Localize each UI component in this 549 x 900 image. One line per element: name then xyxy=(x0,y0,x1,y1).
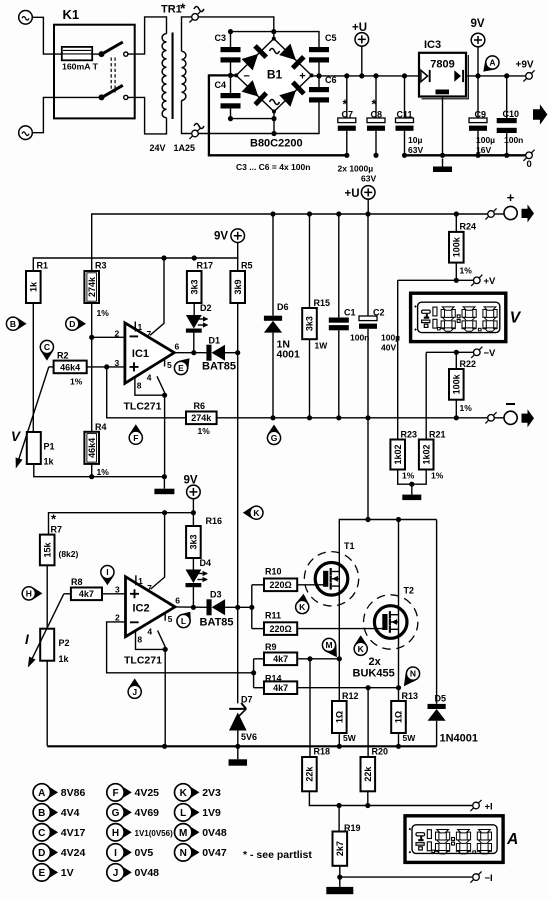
terminal secondary top xyxy=(189,11,200,22)
svg-text:R7: R7 xyxy=(51,525,63,535)
wire R21 top lead xyxy=(425,352,427,439)
junction IC2 pin4 pin8 xyxy=(163,647,168,652)
voltmeter module xyxy=(411,293,522,341)
legend node E 1V xyxy=(33,864,74,881)
wire R8 left stub xyxy=(64,593,71,595)
svg-text:1%: 1% xyxy=(198,426,211,436)
bridge rectifier B1 outline xyxy=(236,39,311,112)
svg-text:1%: 1% xyxy=(402,471,415,481)
wire R15 bottom lead xyxy=(309,339,311,418)
node C xyxy=(40,340,53,360)
wire R20 top lead xyxy=(367,688,369,757)
wire R22 top lead xyxy=(455,352,457,369)
capacitor C11 xyxy=(396,110,424,156)
wire C1 top lead xyxy=(338,214,340,318)
wire D5 cathode lead xyxy=(436,520,438,704)
node H xyxy=(22,587,42,600)
wire R20 bottom lead xyxy=(367,791,369,805)
junction zener gnd xyxy=(235,744,240,749)
wire IC2 pin7 to 9V xyxy=(151,513,165,589)
wire R4 to gnd xyxy=(91,464,93,477)
svg-text:L: L xyxy=(180,808,186,819)
op-amp IC1 xyxy=(125,323,174,383)
svg-text:B: B xyxy=(10,319,16,329)
svg-text:D: D xyxy=(38,848,45,859)
junction bridge left vertex xyxy=(234,73,238,77)
wire D6 anode lead xyxy=(272,333,274,418)
wire C9 top lead xyxy=(477,76,479,118)
svg-text:G: G xyxy=(271,433,278,443)
wire IC2 output xyxy=(175,606,207,608)
resistor R20 xyxy=(361,747,389,792)
node E xyxy=(174,358,189,374)
terminal - output xyxy=(485,412,496,423)
pin 1 tick IC2 xyxy=(135,575,137,585)
wire C4 stub xyxy=(230,75,232,93)
zener diode D7 xyxy=(229,695,257,743)
svg-text:4k7: 4k7 xyxy=(273,683,288,693)
svg-text:F: F xyxy=(112,788,118,799)
svg-text:L: L xyxy=(181,616,186,626)
svg-text:+V: +V xyxy=(484,276,497,287)
resistor R22 xyxy=(449,359,476,413)
resistor R7 xyxy=(40,525,79,566)
svg-text:1A25: 1A25 xyxy=(174,143,196,153)
switch box K1 xyxy=(54,25,135,119)
wire 9V stem xyxy=(477,46,479,76)
capacitor C1 xyxy=(329,308,370,343)
wire IC3 ground lead xyxy=(442,97,444,156)
ground zener xyxy=(229,746,248,765)
legend node K 2V3 xyxy=(175,784,222,801)
wire R17 to D2 xyxy=(193,303,195,315)
junction T1 source xyxy=(337,656,342,661)
wire C11 top lead xyxy=(404,76,406,118)
IC1 minus sign xyxy=(130,335,139,337)
AC mark bottom xyxy=(194,124,204,129)
svg-text:1%: 1% xyxy=(460,403,473,413)
svg-text:24V: 24V xyxy=(150,143,166,153)
capacitor C6 xyxy=(309,75,337,103)
wire C4 bottom xyxy=(231,109,275,119)
terminal -V xyxy=(471,347,482,358)
resistor R19 xyxy=(333,823,361,866)
svg-text:1N4001: 1N4001 xyxy=(440,733,479,745)
legend node I 0V5 xyxy=(107,844,154,861)
svg-text:C3: C3 xyxy=(215,33,227,43)
svg-text:BAT85: BAT85 xyxy=(202,361,236,373)
wire switch1 to TR1 primary top xyxy=(128,17,166,54)
svg-text:(8k2): (8k2) xyxy=(59,549,79,559)
diode D6 xyxy=(264,316,282,333)
ammeter module xyxy=(405,816,518,863)
svg-text:* - see partlist: * - see partlist xyxy=(243,849,312,861)
wire plus rail to IC3 xyxy=(312,75,420,77)
junction C8 0V xyxy=(373,153,378,158)
junction C4 AC bottom xyxy=(228,116,233,121)
svg-text:H: H xyxy=(26,588,32,598)
wire IC1 output xyxy=(174,352,206,354)
svg-text:E: E xyxy=(38,868,45,879)
wire C3 top xyxy=(231,31,274,33)
svg-text:274k: 274k xyxy=(87,276,97,297)
wire 9V rail xyxy=(466,75,529,77)
svg-text:1k02: 1k02 xyxy=(393,444,403,464)
wire +U rail middle xyxy=(92,214,491,272)
junction IC3 gnd 0V xyxy=(440,153,445,158)
svg-text:TR1: TR1 xyxy=(161,4,182,16)
svg-text:*: * xyxy=(180,0,186,16)
svg-text:D6: D6 xyxy=(277,302,289,312)
svg-text:100n: 100n xyxy=(350,333,369,343)
svg-text:0V5: 0V5 xyxy=(135,847,154,859)
svg-text:1%: 1% xyxy=(97,467,110,477)
output jack + xyxy=(504,206,517,219)
svg-text:TLC271: TLC271 xyxy=(124,655,162,667)
legend node N 0V47 xyxy=(175,844,227,861)
wire C3 to minus node xyxy=(231,63,237,76)
svg-text:D2: D2 xyxy=(200,303,212,313)
junction C3 C4 xyxy=(228,73,233,78)
node K xyxy=(243,506,263,519)
svg-text:3k3: 3k3 xyxy=(305,316,315,331)
wire switch2 to TR1 primary bottom xyxy=(128,97,166,133)
IC2 minus sign xyxy=(130,621,139,623)
wire C11 bottom lead xyxy=(404,131,406,156)
svg-text:I: I xyxy=(25,632,29,647)
node I xyxy=(101,566,114,586)
svg-text:E: E xyxy=(178,363,184,373)
svg-text:−: − xyxy=(243,71,249,83)
capacitor C2 xyxy=(359,308,400,353)
junction pin2 sense xyxy=(251,670,256,675)
wire R18 top lead xyxy=(309,659,311,757)
svg-text:+U: +U xyxy=(345,188,360,200)
output arrow 9V xyxy=(533,104,547,125)
junction IC2 pin7 9V xyxy=(162,510,167,515)
output arrow - xyxy=(522,409,535,427)
wire R24 bottom lead xyxy=(455,263,457,281)
svg-text:C: C xyxy=(44,342,50,352)
svg-text:R11: R11 xyxy=(265,611,281,621)
terminal + output xyxy=(485,208,496,219)
svg-text:R12: R12 xyxy=(342,691,359,701)
capacitor C9 xyxy=(469,110,495,156)
junction R20 +I xyxy=(365,803,370,808)
wire R13 to gnd rail xyxy=(398,733,400,746)
svg-text:D3: D3 xyxy=(210,590,222,600)
svg-text:1k: 1k xyxy=(59,654,70,664)
svg-text:9V: 9V xyxy=(184,475,198,487)
junction C2 G line xyxy=(365,415,370,420)
resistor R10 xyxy=(264,567,297,592)
svg-text:40V: 40V xyxy=(381,343,396,353)
wire +U stem xyxy=(361,46,363,76)
svg-text:2V3: 2V3 xyxy=(202,787,221,799)
junction +U rail xyxy=(359,73,364,78)
op-amp IC2 xyxy=(126,577,176,637)
svg-text:46k4: 46k4 xyxy=(87,438,97,458)
wire D3 to gates node xyxy=(225,606,252,608)
node K at T1 xyxy=(296,594,309,614)
svg-text:+I: +I xyxy=(485,802,493,813)
junction R18 tap xyxy=(307,656,312,661)
svg-text:22k: 22k xyxy=(305,766,315,782)
junction R17 9V xyxy=(192,255,197,260)
svg-text:R16: R16 xyxy=(206,516,223,526)
node K at T2 xyxy=(354,635,367,655)
svg-text:3k9: 3k9 xyxy=(233,279,243,294)
svg-text:A: A xyxy=(489,58,495,68)
junction C8 top xyxy=(373,73,378,78)
junction C1 G line xyxy=(336,415,341,420)
svg-text:T2: T2 xyxy=(404,586,415,596)
junction IC2 gnd rail xyxy=(162,744,167,749)
svg-text:R23: R23 xyxy=(401,430,418,440)
junction R24 rail xyxy=(454,211,459,216)
svg-text:K: K xyxy=(299,602,306,612)
resistor R11 xyxy=(264,611,297,635)
supply +U middle xyxy=(345,186,376,200)
junction R20 tap xyxy=(366,685,371,690)
wire R9 to T1 source xyxy=(297,658,339,660)
wire -V line xyxy=(426,351,456,353)
svg-text:R10: R10 xyxy=(265,567,282,577)
junction C10 0V xyxy=(504,153,509,158)
svg-text:C4: C4 xyxy=(215,80,227,90)
resistor R6 xyxy=(186,401,217,436)
wire T1 drain-source line xyxy=(339,520,436,702)
wire gnd rail IC1 xyxy=(34,464,165,477)
wire IC1 pin4 to gnd xyxy=(164,395,166,477)
junction 9V rail xyxy=(475,73,480,78)
wire to + jack xyxy=(494,213,504,215)
svg-text:IC3: IC3 xyxy=(424,39,441,51)
svg-text:10µ: 10µ xyxy=(408,135,422,145)
wire R1 to P1 xyxy=(32,303,34,432)
wire R19 bottom lead xyxy=(339,866,341,877)
svg-text:6: 6 xyxy=(175,342,180,352)
transistor T1 BUK455 xyxy=(304,541,358,606)
svg-text:3: 3 xyxy=(115,358,120,368)
svg-text:0: 0 xyxy=(527,159,532,170)
wire zener to gnd rail xyxy=(237,731,239,747)
svg-text:1k02: 1k02 xyxy=(421,444,431,464)
wire C5 to C6 xyxy=(318,63,320,88)
svg-text:2x 1000µ: 2x 1000µ xyxy=(338,164,374,174)
wire mains L to fuse xyxy=(32,17,61,54)
svg-text:1V9: 1V9 xyxy=(202,807,221,819)
svg-text:0V48: 0V48 xyxy=(202,827,227,839)
wire R7 to P2 xyxy=(46,565,48,628)
wire R23 top lead xyxy=(397,280,399,439)
wire D4 to output xyxy=(192,586,194,607)
label minus xyxy=(506,403,515,405)
junction C7 top xyxy=(344,73,349,78)
junction 9V stem IC2 xyxy=(191,510,196,515)
junction C9 0V xyxy=(475,153,480,158)
junction C5 C6 rail xyxy=(316,73,321,78)
wire C2 to drain line xyxy=(367,418,369,520)
wire IC2 pin4 to gnd xyxy=(164,649,166,746)
svg-text:D: D xyxy=(69,319,75,329)
svg-text:D7: D7 xyxy=(241,695,253,705)
ground meter divider xyxy=(402,484,421,500)
svg-text:R1: R1 xyxy=(37,261,49,271)
svg-text:8V86: 8V86 xyxy=(61,787,86,799)
wire IC2 pin8 xyxy=(136,631,166,649)
wire R24 top lead xyxy=(455,214,457,232)
svg-text:5W: 5W xyxy=(403,733,417,743)
svg-text:R21: R21 xyxy=(429,430,446,440)
wire R22 bottom lead xyxy=(455,400,457,418)
legend node F 4V25 xyxy=(107,784,159,801)
svg-text:R3: R3 xyxy=(95,261,107,271)
junction C10 top xyxy=(504,73,509,78)
resistor R23 xyxy=(390,430,417,481)
svg-text:100k: 100k xyxy=(452,236,462,257)
wire R14 to T2 source xyxy=(297,687,398,689)
IC2 plus sign xyxy=(130,589,139,598)
node L xyxy=(177,612,191,628)
svg-text:1k: 1k xyxy=(29,281,39,292)
svg-text:3k3: 3k3 xyxy=(189,534,199,549)
bridge AC mark top xyxy=(270,49,280,54)
wire D5 anode lead xyxy=(436,721,438,747)
junction IC1 pin4 gnd xyxy=(162,474,167,479)
svg-text:TLC271: TLC271 xyxy=(124,401,162,413)
svg-text:B80C2200: B80C2200 xyxy=(250,138,303,150)
ground IC1 section xyxy=(154,477,174,495)
svg-text:B1: B1 xyxy=(267,68,283,82)
svg-text:C3 ... C6 = 4x 100n: C3 ... C6 = 4x 100n xyxy=(236,162,310,172)
svg-text:160mA T: 160mA T xyxy=(62,62,99,72)
svg-text:2x: 2x xyxy=(369,656,382,668)
supply 9V IC2 xyxy=(184,475,201,499)
capacitor C3 xyxy=(215,33,241,63)
svg-text:F: F xyxy=(133,433,138,443)
AC mains source bottom xyxy=(19,126,33,140)
resistor R18 xyxy=(302,747,330,792)
switch pole 1 xyxy=(99,42,128,57)
junction T2 drain xyxy=(396,517,401,522)
terminal +9V xyxy=(523,70,534,81)
junction bridge AC bottom xyxy=(271,116,276,121)
wire R11 to T2 gate xyxy=(297,628,382,630)
svg-text:7809: 7809 xyxy=(430,59,454,71)
svg-text:9V: 9V xyxy=(471,18,485,30)
potentiometer P1 xyxy=(11,367,55,469)
junction C11 0V xyxy=(402,153,407,158)
wire bridge minus to 0V rail xyxy=(209,75,347,155)
svg-text:220Ω: 220Ω xyxy=(269,580,291,590)
wire mains N to switch xyxy=(32,97,102,132)
svg-text:J: J xyxy=(113,868,119,879)
svg-text:+U: +U xyxy=(352,22,367,34)
legend node C 4V17 xyxy=(33,824,85,841)
wire 9V stem R5 xyxy=(237,242,239,271)
bridge diode upper-left xyxy=(242,44,269,70)
svg-text:22k: 22k xyxy=(363,766,373,782)
svg-text:1V1(0V56): 1V1(0V56) xyxy=(135,829,174,838)
capacitor C8 xyxy=(367,97,385,131)
wire C2 bottom lead xyxy=(367,329,369,418)
svg-text:R8: R8 xyxy=(71,577,83,587)
junction R12 gnd xyxy=(337,744,342,749)
svg-text:C5: C5 xyxy=(325,33,337,43)
junction D6 rail xyxy=(270,211,275,216)
node M xyxy=(322,638,337,657)
junction pin2 node xyxy=(89,335,94,340)
resistor R16 xyxy=(186,516,222,558)
junction pin3 feedback xyxy=(104,364,109,369)
terminal secondary bottom xyxy=(189,128,200,139)
svg-text:BUK455: BUK455 xyxy=(353,668,395,680)
wire C3 stub xyxy=(230,32,232,47)
junction pin4 pin8 xyxy=(162,393,167,398)
legend node H 1V1(0V56) xyxy=(107,824,173,841)
bridge diode upper-right xyxy=(279,44,305,70)
wire G line to minus terminal xyxy=(217,417,491,419)
svg-text:1: 1 xyxy=(138,322,143,332)
junction AC bottom wire xyxy=(271,131,276,136)
svg-text:1W: 1W xyxy=(315,341,329,351)
wire clamp to zener xyxy=(237,607,239,703)
svg-text:1k: 1k xyxy=(44,457,55,467)
wire to -V terminal xyxy=(456,351,473,353)
svg-text:M: M xyxy=(179,828,187,839)
AC mark top xyxy=(194,7,204,12)
svg-text:−I: −I xyxy=(485,873,493,884)
svg-text:D4: D4 xyxy=(200,558,212,568)
wire R16 to D4 xyxy=(192,558,194,570)
capacitor C4 xyxy=(215,80,241,109)
svg-text:R5: R5 xyxy=(241,261,253,271)
svg-text:6: 6 xyxy=(175,596,180,606)
svg-text:D1: D1 xyxy=(209,336,221,346)
svg-text:R19: R19 xyxy=(344,823,361,833)
resistor R1 xyxy=(26,261,48,304)
wire R12 to gnd rail xyxy=(338,733,340,746)
supply +U xyxy=(352,22,369,46)
wire C8 bottom lead xyxy=(375,131,377,156)
wire fuse to switch xyxy=(93,53,102,55)
svg-text:A: A xyxy=(506,831,518,848)
resistor R5 xyxy=(230,261,252,304)
svg-text:5V6: 5V6 xyxy=(241,732,257,742)
svg-text:1%: 1% xyxy=(70,377,83,387)
junction IC1 out D2 xyxy=(191,350,196,355)
wire D6 cathode lead xyxy=(272,214,274,316)
regulator IC3 7809 xyxy=(419,53,468,99)
wire C1 bottom lead xyxy=(338,330,340,418)
node D xyxy=(66,317,86,330)
svg-text:I: I xyxy=(114,848,117,859)
junction C11 top xyxy=(402,73,407,78)
ground IC3 xyxy=(433,159,452,173)
svg-text:4V25: 4V25 xyxy=(135,787,160,799)
wire 0V rail right xyxy=(405,154,530,156)
junction gate split xyxy=(249,605,254,610)
svg-text:2: 2 xyxy=(115,328,120,338)
svg-text:4V17: 4V17 xyxy=(61,827,86,839)
wire to R10 xyxy=(252,584,264,586)
wire D1 to R5 xyxy=(225,352,238,354)
wire to R9 xyxy=(254,658,264,660)
resistor R9 xyxy=(264,642,297,665)
wire to R14 xyxy=(254,687,264,689)
svg-text:5W: 5W xyxy=(343,733,357,743)
